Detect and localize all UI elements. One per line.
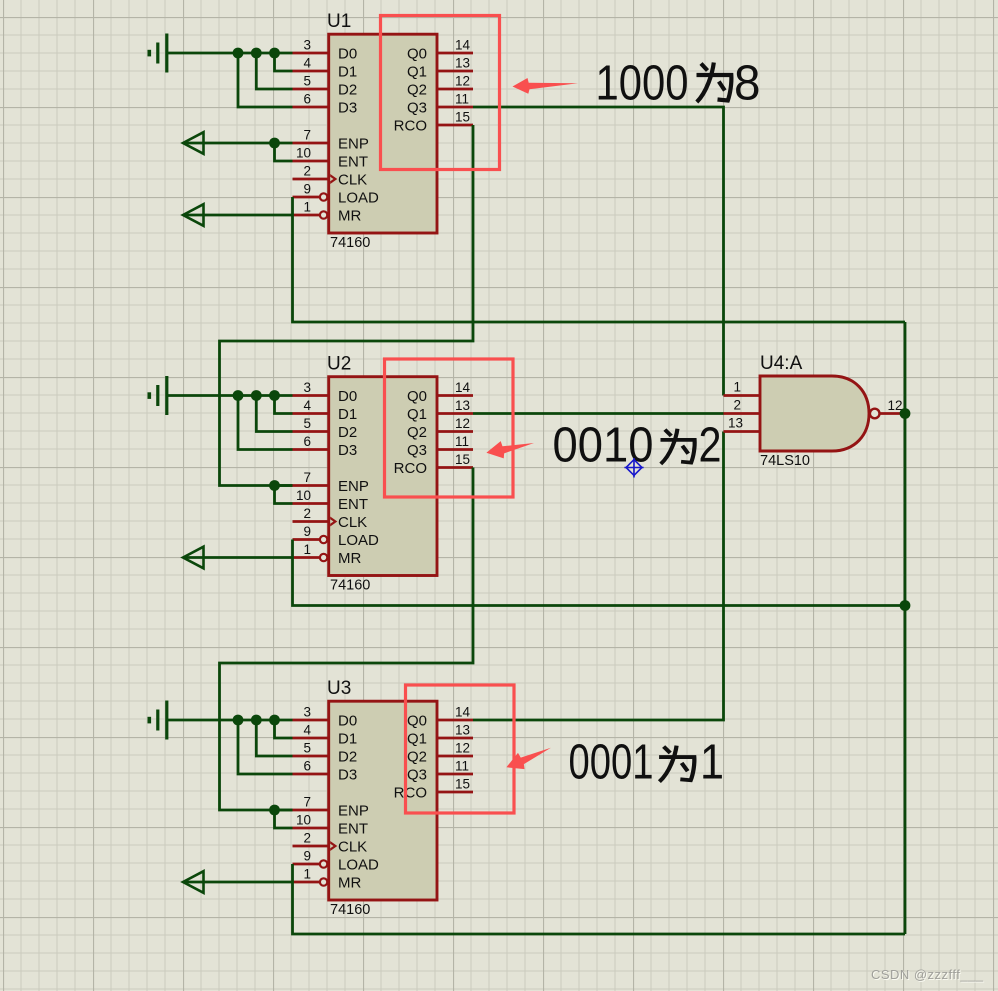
red arrow 2: [485, 437, 535, 461]
junction dot rail-U2 LOAD: [900, 600, 911, 611]
wire U1 RCO to U2 ENP: [220, 125, 474, 486]
blue crosshair cursor: [624, 458, 643, 478]
NAND bubble: [870, 409, 880, 419]
NAND output stub: [880, 412, 904, 415]
svg-text:2: 2: [699, 418, 722, 472]
svg-text:U2: U2: [327, 354, 351, 375]
svg-text:2: 2: [733, 398, 741, 413]
svg-text:U1: U1: [327, 11, 351, 32]
red box 2 around U2 outputs: [385, 359, 514, 497]
red box 3 around U3 outputs: [406, 685, 515, 813]
svg-text:12: 12: [888, 398, 903, 413]
svg-text:1000: 1000: [596, 57, 689, 111]
svg-text:74LS10: 74LS10: [760, 453, 810, 469]
svg-text:1: 1: [700, 736, 724, 790]
wire U3 LOAD to NAND output rail: [293, 864, 906, 934]
svg-text:1: 1: [733, 380, 741, 395]
terminal arrow U1 ENP: [183, 132, 204, 154]
svg-text:13: 13: [728, 416, 743, 431]
wire U1 Q3 to NAND pin1: [473, 107, 724, 396]
junction dot output pin12: [900, 408, 911, 419]
NAND gate U4:A body: [760, 376, 869, 451]
NAND gate U4:A input stubs: [724, 396, 761, 432]
red box 1 around U1 outputs: [381, 16, 500, 170]
counter U2: [148, 376, 474, 594]
wire U2 LOAD to NAND output rail: [293, 540, 906, 606]
wire U1 LOAD to NAND output rail: [293, 197, 906, 322]
counter U3: [148, 701, 474, 919]
svg-text:U3: U3: [327, 678, 351, 699]
wire U2 RCO to U3 ENP: [220, 468, 474, 811]
wire U3 Q0 to NAND pin13: [473, 432, 724, 721]
counter U1: [148, 34, 474, 252]
red arrow 3: [503, 742, 555, 775]
wire U1 ENP feed: [183, 142, 275, 145]
wire NAND output vertical rail: [904, 322, 907, 934]
svg-text:8: 8: [734, 57, 761, 111]
svg-text:CSDN @zzzfff___: CSDN @zzzfff___: [871, 967, 984, 982]
wire U2 Q1 to NAND pin2: [473, 412, 724, 415]
svg-text:0001: 0001: [569, 736, 654, 790]
red arrow 1: [513, 78, 579, 94]
svg-text:U4:A: U4:A: [760, 353, 803, 374]
